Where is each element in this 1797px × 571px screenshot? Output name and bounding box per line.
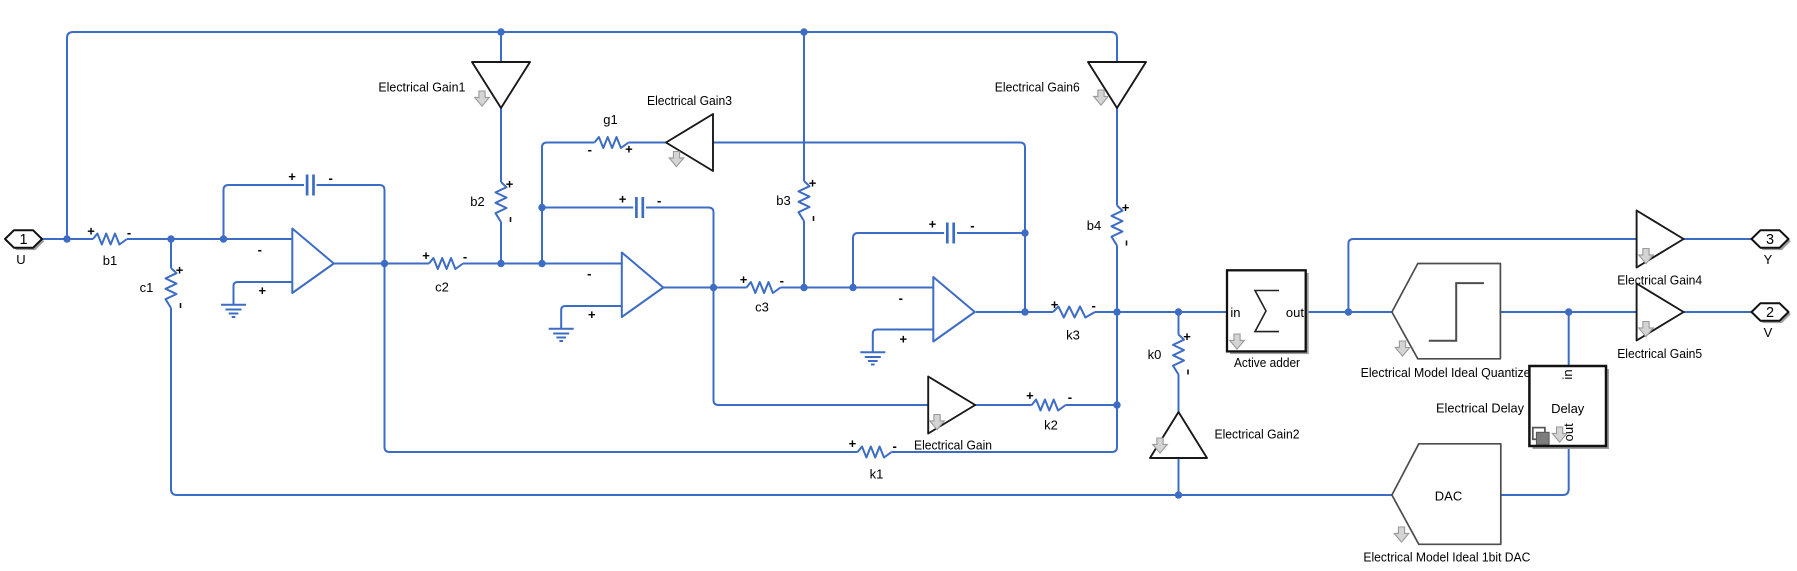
svg-text:-: - bbox=[970, 218, 974, 233]
wire: b3 bottom to U3 input row node bbox=[803, 221, 805, 288]
wire: c1 bottom to bottom feedback rail to DAC input bbox=[171, 308, 1392, 495]
wire: Delay output down and left to DAC output bbox=[1501, 446, 1569, 495]
svg-text:Electrical Gain4: Electrical Gain4 bbox=[1617, 273, 1702, 288]
svg-text:-: - bbox=[329, 171, 333, 186]
svg-text:2: 2 bbox=[1766, 305, 1774, 321]
svg-text:Delay: Delay bbox=[1551, 401, 1585, 416]
svg-text:+: + bbox=[422, 248, 430, 263]
svg-text:+: + bbox=[900, 332, 908, 347]
svg-text:-: - bbox=[893, 439, 897, 454]
gain block Electrical Gain6 bbox=[1088, 62, 1146, 108]
svg-text:Electrical Model Ideal Quantiz: Electrical Model Ideal Quantizer bbox=[1361, 365, 1536, 380]
capacitor C3 bbox=[929, 217, 975, 244]
svg-text:b1: b1 bbox=[103, 253, 117, 268]
svg-text:U: U bbox=[16, 252, 25, 267]
gain block Electrical Gain4 bbox=[1637, 211, 1684, 268]
resistor k1 bbox=[849, 436, 897, 482]
wire: quantizer output to Electrical Gain5 (output V) bbox=[1500, 311, 1636, 313]
junction: U1 output node bbox=[381, 260, 388, 267]
junction: k3 / main feedback column bbox=[1113, 308, 1120, 315]
wire: b2 bottom to node at op-amp U2 input row bbox=[500, 222, 502, 264]
wire: Active adder output to quantizer input bbox=[1306, 311, 1392, 313]
junction: C3 tap bbox=[849, 284, 856, 291]
wire: cap C1 right down to op-amp U1 output node, down to k1 row bbox=[317, 185, 858, 452]
junction: k0 tap bbox=[1175, 308, 1182, 315]
svg-text:Y: Y bbox=[1764, 252, 1773, 267]
resistor c1 bbox=[140, 263, 184, 309]
op-amp U2 bbox=[587, 253, 663, 323]
svg-text:-: - bbox=[899, 291, 903, 306]
svg-text:Electrical Model Ideal 1bit DA: Electrical Model Ideal 1bit DAC bbox=[1363, 550, 1530, 565]
gain block Electrical Gain2 bbox=[1150, 412, 1207, 458]
wire: top feedback rail from input node to Electrical Gain6 bbox=[67, 32, 1117, 239]
capacitor C2 bbox=[619, 192, 662, 218]
svg-text:-: - bbox=[463, 249, 467, 264]
resistor b4 bbox=[1087, 200, 1130, 246]
gain block Electrical Gain1 bbox=[472, 62, 530, 108]
svg-text:+: + bbox=[619, 192, 627, 207]
resistor b3 bbox=[776, 176, 816, 222]
svg-text:Electrical Gain2: Electrical Gain2 bbox=[1215, 427, 1300, 442]
ground (U1 non-inverting input) bbox=[221, 282, 292, 317]
wire: node A up to integrator cap C1 left bbox=[224, 185, 305, 239]
ground (U3 non-inverting input) bbox=[860, 330, 933, 365]
svg-text:k3: k3 bbox=[1066, 328, 1080, 343]
svg-text:in: in bbox=[1560, 369, 1575, 379]
svg-text:in: in bbox=[1230, 305, 1240, 320]
wire: k0 bottom to Electrical Gain2 output apex bbox=[1178, 375, 1180, 413]
svg-text:-: - bbox=[1092, 298, 1096, 313]
gain block Electrical Gain bbox=[928, 377, 975, 434]
svg-text:DAC: DAC bbox=[1435, 489, 1462, 504]
svg-text:+: + bbox=[176, 263, 184, 278]
Electrical Model Ideal Quantizer block bbox=[1392, 264, 1501, 359]
resistor k3 bbox=[1051, 297, 1096, 343]
svg-text:Electrical Gain3: Electrical Gain3 bbox=[647, 93, 732, 108]
junction: U1 inverting node / C1 tap bbox=[220, 235, 227, 242]
wire: U3 input node up to integrator cap C3 bbox=[853, 233, 944, 288]
wire: cap C2 right to U2 output column down to Electrical Gain input row bbox=[646, 208, 928, 406]
Active adder block bbox=[1227, 270, 1309, 354]
svg-text:+: + bbox=[849, 436, 857, 451]
svg-text:b4: b4 bbox=[1087, 218, 1101, 233]
wire: c3 to op-amp U3 inverting input bbox=[781, 287, 934, 289]
wire: Electrical Gain4 output to port Y bbox=[1684, 238, 1752, 240]
svg-text:+: + bbox=[506, 177, 514, 192]
svg-text:+: + bbox=[1026, 388, 1034, 403]
svg-text:+: + bbox=[288, 169, 296, 184]
svg-text:+: + bbox=[1051, 297, 1059, 312]
wire: Electrical Gain3 input from op-amp U3 output column bbox=[713, 143, 1025, 313]
wire: input port U to resistor b1 bbox=[42, 238, 93, 240]
wire: top rail down to Electrical Gain1 input bbox=[500, 32, 502, 62]
svg-text:Electrical Delay: Electrical Delay bbox=[1436, 401, 1524, 416]
wire: b1 to op-amp U1 inverting input bbox=[127, 238, 292, 240]
svg-text:V: V bbox=[1764, 325, 1773, 340]
junction: input node (U / top rail) bbox=[63, 235, 70, 242]
op-amp U1 bbox=[258, 229, 334, 299]
svg-text:out: out bbox=[1286, 305, 1304, 320]
input port 1 (U) bbox=[5, 230, 44, 267]
resistor b1 bbox=[87, 224, 131, 269]
wire: cap C3 right to U3 output column bbox=[957, 232, 1025, 234]
svg-text:Electrical Gain: Electrical Gain bbox=[914, 438, 992, 453]
resistor k0 bbox=[1148, 329, 1192, 375]
svg-text:-: - bbox=[1068, 390, 1072, 405]
Electrical Model Ideal 1bit DAC block bbox=[1392, 444, 1501, 545]
resistor b2 bbox=[470, 177, 513, 223]
junction: Delay branch bbox=[1565, 308, 1572, 315]
svg-text:Electrical Gain1: Electrical Gain1 bbox=[378, 80, 465, 95]
junction: k2 / main feedback column bbox=[1113, 401, 1120, 408]
wire: V node down to Delay block input bbox=[1568, 312, 1570, 366]
resistor c3 bbox=[740, 272, 784, 315]
svg-text:Active adder: Active adder bbox=[1234, 355, 1301, 370]
wire: Electrical Gain2 input from bottom rail bbox=[1178, 458, 1180, 495]
junction: U2 output node bbox=[710, 284, 717, 291]
svg-text:c1: c1 bbox=[140, 280, 154, 295]
junction: b2 tap bbox=[497, 260, 504, 267]
wire: k2 to main feedback column bbox=[1066, 404, 1117, 406]
svg-text:1: 1 bbox=[19, 232, 27, 248]
wire: adder input node down to resistor k0 bbox=[1178, 312, 1180, 335]
svg-text:b2: b2 bbox=[470, 194, 484, 209]
svg-text:-: - bbox=[588, 142, 592, 157]
gain block Electrical Gain5 bbox=[1637, 284, 1684, 341]
svg-text:+: + bbox=[809, 176, 817, 191]
wire: k3 to Active adder input bbox=[1095, 311, 1228, 313]
junction: Y branch bbox=[1345, 308, 1352, 315]
svg-text:c2: c2 bbox=[435, 280, 449, 295]
wire: top rail down to resistor b3 bbox=[803, 32, 805, 181]
wire: Gain1 output down to resistor b2 top bbox=[500, 108, 502, 182]
svg-text:-: - bbox=[780, 273, 784, 288]
svg-text:+: + bbox=[1183, 329, 1191, 344]
output port 3 (Y) bbox=[1752, 230, 1791, 267]
wire: op-amp U2 output to resistor c3 bbox=[663, 287, 746, 289]
svg-text:k0: k0 bbox=[1148, 347, 1162, 362]
wire: Electrical Gain6 output down to resistor b4 bbox=[1116, 108, 1118, 206]
svg-text:-: - bbox=[657, 193, 661, 208]
resistor k2 bbox=[1026, 388, 1072, 433]
svg-text:k2: k2 bbox=[1044, 418, 1058, 433]
svg-text:k1: k1 bbox=[870, 467, 884, 482]
svg-text:+: + bbox=[625, 141, 633, 156]
svg-text:+: + bbox=[929, 217, 937, 232]
svg-text:-: - bbox=[127, 225, 131, 240]
svg-text:out: out bbox=[1561, 423, 1576, 441]
gain block Electrical Gain3 bbox=[666, 114, 713, 171]
junction: Gain1 tap on top rail bbox=[497, 28, 504, 35]
wire: cap C2 branch from U2 input column bbox=[542, 207, 633, 209]
output port 2 (V) bbox=[1752, 303, 1791, 340]
op-amp U3 bbox=[899, 277, 975, 347]
capacitor C1 bbox=[288, 169, 333, 196]
wire: c1 branch down to bottom rail and bottom rail to DAC bbox=[170, 239, 172, 268]
resistor c2 bbox=[422, 248, 467, 295]
wire: op-amp U1 output to resistor c2 bbox=[334, 263, 429, 265]
wire: b4 bottom through k3 node down to k1 row bbox=[892, 246, 1117, 453]
svg-text:+: + bbox=[87, 224, 95, 239]
ground (U2 non-inverting input) bbox=[549, 306, 622, 341]
svg-text:+: + bbox=[1122, 200, 1130, 215]
resistor g1 bbox=[588, 112, 633, 157]
svg-text:-: - bbox=[258, 242, 262, 257]
wire: U2 input node up to resistor g1 bbox=[542, 143, 595, 264]
junction: b3 tap bbox=[800, 284, 807, 291]
wire: Electrical Gain5 output to port V bbox=[1684, 311, 1752, 313]
junction: Gain2 input on bottom rail bbox=[1175, 491, 1182, 498]
junction: U3 output node bbox=[1021, 308, 1028, 315]
junction: C3 right / Gain3 column bbox=[1021, 229, 1028, 236]
junction: b3 tap on top rail bbox=[800, 28, 807, 35]
svg-text:+: + bbox=[259, 283, 267, 298]
svg-text:+: + bbox=[588, 307, 596, 322]
svg-text:+: + bbox=[740, 272, 748, 287]
svg-text:3: 3 bbox=[1766, 232, 1774, 248]
svg-text:g1: g1 bbox=[603, 112, 617, 127]
svg-text:Electrical Gain5: Electrical Gain5 bbox=[1617, 346, 1702, 361]
wire: branch up to Electrical Gain4 (output Y) bbox=[1348, 239, 1636, 312]
wire: op-amp U3 output to resistor k3 bbox=[976, 311, 1053, 313]
junction: U2 inverting node bbox=[538, 260, 545, 267]
wire: Electrical Gain output to resistor k2 bbox=[975, 404, 1031, 406]
svg-text:Electrical Gain6: Electrical Gain6 bbox=[995, 80, 1080, 95]
svg-text:c3: c3 bbox=[755, 300, 769, 315]
Electrical Delay block bbox=[1529, 366, 1609, 449]
wire: g1 to Electrical Gain3 output apex bbox=[629, 142, 666, 144]
svg-text:-: - bbox=[587, 266, 591, 281]
junction: c1 tap bbox=[167, 235, 174, 242]
junction: C2 tap bbox=[538, 204, 545, 211]
svg-text:b3: b3 bbox=[776, 193, 790, 208]
wire: c2 to op-amp U2 inverting input bbox=[463, 263, 622, 265]
